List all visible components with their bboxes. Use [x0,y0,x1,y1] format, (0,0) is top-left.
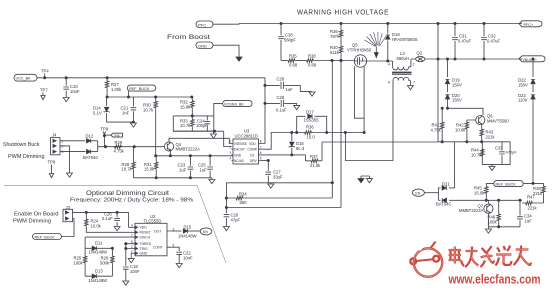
capacitor C19 [123,264,140,281]
svg-text:Q2: Q2 [417,51,423,56]
connector J4 [51,133,64,155]
svg-text:150V: 150V [452,82,462,87]
svg-text:110V: 110V [518,98,528,103]
connector VOSNS_BK [214,101,252,116]
ground under loop [489,165,495,171]
zener D16 [289,131,305,155]
capacitor C31 [452,22,471,60]
diode D19 [445,58,462,92]
svg-text:3: 3 [230,151,232,155]
capacitor C29 [264,95,297,113]
capacitor C26 [102,211,120,230]
svg-text:GND: GND [140,252,148,256]
svg-text:D13: D13 [95,269,103,274]
transformer L3 [388,51,416,85]
wire VCC rail [37,77,265,79]
svg-text:TP8: TP8 [48,160,56,165]
connector REF_BUCK low [33,234,62,240]
svg-text:J4: J4 [52,133,57,138]
svg-text:PFC+: PFC+ [524,23,535,27]
svg-text:221k: 221k [528,205,538,210]
connector PFC (from boost) [196,21,217,28]
svg-text:1SS355: 1SS355 [304,118,320,123]
svg-text:VCC_BK: VCC_BK [16,77,32,81]
svg-text:BAT54C: BAT54C [436,201,452,206]
resistor R30 [143,97,158,156]
wire emitter rail [156,155,233,157]
svg-text:1N4148W: 1N4148W [178,234,197,239]
svg-text:1: 1 [62,139,64,143]
resistor R41 [431,107,445,142]
watermark chinese inner highlight [449,247,529,266]
svg-text:1N4148W: 1N4148W [89,250,108,255]
transistor Q4 [164,142,200,152]
svg-text:470pF: 470pF [506,150,518,155]
resistor R35 [287,54,306,68]
svg-text:EAOUT: EAOUT [234,148,245,152]
diode D17 [304,110,320,123]
wire Q5 drain to L3 [367,60,393,62]
svg-text:2: 2 [62,144,64,148]
svg-text:D17: D17 [306,110,314,115]
wire OUT row [171,230,181,232]
svg-text:REF_BUCK: REF_BUCK [496,182,517,186]
wire VBUCK row [425,58,520,60]
svg-text:MMBT2222A: MMBT2222A [459,208,484,213]
svg-text:EN: EN [415,191,420,195]
testpoint TP7 [40,88,48,100]
svg-text:15.0k: 15.0k [474,190,485,195]
testpoint TP9 [101,127,109,147]
resistor R25 [74,248,87,276]
wire bottom rail [134,177,215,184]
svg-text:COMP: COMP [248,148,258,152]
svg-text:1uF: 1uF [200,167,208,172]
capacitor C27 [266,159,283,182]
capacitor C32 [481,22,500,60]
svg-text:R36: R36 [306,125,314,130]
wire DISCH ladder top [85,237,135,248]
wire CS to Q5 [332,60,355,62]
wire J3 pin2 to REF [62,219,75,237]
watermark logo elecfans [410,242,442,277]
ground under C20 [223,227,229,231]
svg-text:221k: 221k [486,134,496,139]
wire THRES TRIG joins [125,243,135,266]
svg-text:NC/AD: NC/AD [234,159,245,163]
resistor R38 [306,54,333,68]
svg-text:R37: R37 [310,154,318,159]
svg-text:9L-3: 9L-3 [296,146,305,151]
resistor R33 [180,115,194,131]
svg-text:4: 4 [230,157,232,161]
svg-text:RESET: RESET [140,231,151,235]
svg-text:PWM Dimming: PWM Dimming [13,218,51,224]
svg-text:REF_BUCK: REF_BUCK [129,87,150,91]
capacitor C22 [176,251,193,268]
svg-text:www.elecfans.com: www.elecfans.com [448,272,541,287]
svg-text:511k: 511k [330,50,340,55]
capacitor C10 [63,77,80,98]
resistor R45 [474,183,488,200]
wire CS feedback long [322,142,438,161]
capacitor C23 [178,156,194,178]
svg-text:787k: 787k [330,34,340,39]
svg-text:0.47uF: 0.47uF [458,39,471,44]
svg-text:EN: EN [203,230,208,234]
resistor R42 [455,120,476,142]
svg-text:MMBT2222A: MMBT2222A [176,147,201,152]
svg-text:REF_BUCK: REF_BUCK [35,235,56,239]
svg-text:0.68: 0.68 [289,63,298,68]
svg-text:1.00k: 1.00k [111,87,122,92]
wire J4 pin3 [60,151,86,153]
svg-text:TRIG: TRIG [140,247,148,251]
transistor Q5 MOSFET [347,43,372,68]
flag EN tap [104,133,122,138]
svg-text:UCC28811D: UCC28811D [235,133,258,138]
svg-text:33uF: 33uF [273,174,283,179]
svg-text:C33: C33 [495,146,503,151]
resistor R47 [522,195,544,211]
svg-text:0.1uF: 0.1uF [102,216,113,221]
wire pin5 stub to C27 [261,160,268,162]
node dots row97 [106,96,193,98]
node top bus start [239,23,520,25]
capacitor C33 [495,142,517,165]
svg-text:150V: 150V [518,82,528,87]
loop D17 [297,116,327,132]
wire Q5 source down [363,67,365,134]
resistor R37 [306,154,323,168]
svg-text:OUT: OUT [154,229,161,233]
capacitor C20 [224,213,241,223]
svg-text:5.1V: 5.1V [93,111,102,116]
svg-text:HFA08TB60S: HFA08TB60S [392,37,418,42]
svg-text:1N4148W: 1N4148W [89,278,108,283]
watermark chinese halo [449,246,532,268]
wire C20 column [225,183,227,227]
svg-text:DISCH: DISCH [140,235,151,239]
wire loop bottom to arrow [173,130,223,138]
capacitor C21 [121,97,137,122]
wire PFC to top bus [217,23,240,26]
capacitor C34 [517,200,532,227]
resistor R46 [488,200,501,227]
wire Q5 gate down [354,66,364,118]
node dots base row [104,146,135,148]
svg-text:From Boost: From Boost [167,34,210,41]
wire Q4 emitter [169,151,171,156]
svg-text:500k: 500k [100,260,110,265]
op-amp U2 TLC555D [131,214,175,256]
svg-text:MMVT5560: MMVT5560 [487,118,509,123]
testpoint TP8 [48,160,56,178]
zener D14 [93,97,133,122]
svg-text:10.7k: 10.7k [122,167,133,172]
wire D21 row to node [455,199,488,201]
svg-text:TP9: TP9 [101,127,109,132]
resistor R34 [235,191,247,205]
wire L3 pin7 arrow [407,84,413,89]
svg-text:Shutdown Buck: Shutdown Buck [3,142,40,148]
wire J3 pin1 row [73,211,136,227]
wire J4 pin1 [60,140,86,142]
connector VBUCK+ [519,56,545,62]
connector EN oval right [412,189,438,196]
resistor R40 [330,38,343,62]
resistor R32 [180,97,194,116]
diode D20 [445,93,462,109]
capacitor C28 [265,77,315,97]
wire CONT row [171,247,179,251]
resistor R27 [105,77,122,97]
svg-text:R47: R47 [527,195,535,200]
wire C27 ground rail [226,182,333,189]
transistor Q7 [459,200,493,214]
wire D20 to Q6 collector [446,107,483,115]
svg-text:Frequency: 200Hz / Duty C: Frequency: 200Hz / Duty Cycle: 18% - 98% [70,197,193,203]
svg-text:EN: EN [115,134,120,138]
svg-text:4.75k: 4.75k [431,127,442,132]
svg-text:WARNING HIGH VOLTAGE: WARNING HIGH VOLTAGE [297,8,389,17]
wire VDD column [261,78,266,144]
diode D21 [436,182,455,207]
resistor R39 [296,125,328,140]
svg-text:150V: 150V [452,98,462,103]
svg-text:VDD: VDD [249,142,256,146]
diode D11 [85,240,113,254]
wire D21 up to rail [454,142,456,188]
svg-text:100pF: 100pF [196,123,208,128]
wire Q7 emitter ground [485,214,520,233]
svg-text:PFC: PFC [198,22,206,27]
wire GND down arrow [217,45,243,61]
svg-text:9: 9 [388,81,390,85]
wire right main vertical [437,22,439,141]
wire sense row [281,60,287,62]
svg-text:DRV: DRV [250,159,258,163]
loop R44 C33 [482,142,510,165]
svg-text:R38: R38 [308,54,316,59]
wire J4 pin2 to ground [60,146,73,177]
svg-text:10nF: 10nF [130,269,140,274]
connector J3 [63,205,73,222]
ground C19 [123,281,129,285]
svg-text:R35: R35 [289,54,297,59]
node dots rail155 [155,155,212,157]
svg-text:660uH: 660uH [397,56,409,61]
wire node row [107,96,192,98]
svg-text:1: 1 [230,140,232,144]
svg-text:R34: R34 [239,191,247,196]
wire rail 141.8 [438,141,483,143]
svg-text:YTPHH8N50: YTPHH8N50 [347,48,372,53]
border optional dimming [4,186,226,263]
connector REF_BUCK mid [127,85,156,97]
svg-text:GND: GND [198,43,207,48]
svg-text:0.1uF: 0.1uF [276,108,287,113]
svg-text:3: 3 [62,150,64,154]
ground under C10 [63,98,69,102]
svg-text:VSENSE: VSENSE [234,142,247,146]
diode D13 [85,269,112,283]
capacitor C38 [278,24,296,61]
svg-text:1uF: 1uF [179,167,187,172]
resistor R31 [144,156,158,178]
svg-text:560pF: 560pF [284,38,296,43]
svg-text:TP4: TP4 [41,69,49,74]
svg-text:1uF: 1uF [286,87,294,92]
svg-text:10.7k: 10.7k [471,152,482,157]
svg-text:4: 4 [388,63,390,67]
svg-text:100k: 100k [74,260,84,265]
svg-text:GND: GND [234,153,242,157]
svg-text:10.0k: 10.0k [455,127,466,132]
svg-text:0.68: 0.68 [308,63,317,68]
wire base row to R47 [486,199,522,201]
svg-text:0.47uF: 0.47uF [487,39,500,44]
svg-text:VDD: VDD [140,226,148,230]
svg-text:VOSNS_BK: VOSNS_BK [224,102,244,106]
svg-text:BAT540: BAT540 [83,155,98,160]
resistor R28 [122,147,136,178]
capacitor C25 [198,156,213,178]
svg-text:PWM Dimming: PWM Dimming [8,154,45,160]
loop R33 C24 [173,116,214,131]
svg-text:Optional Dimming Circuit: Optional Dimming Circuit [86,190,169,197]
resistor R43 [480,125,496,142]
connector GND (from boost) [196,42,217,49]
svg-text:560: 560 [240,200,248,205]
svg-text:10.7k: 10.7k [143,108,154,113]
wire loop bottom to U3 pin2 [224,131,232,146]
ground U2 [128,253,135,263]
svg-text:Enable On Board: Enable On Board [14,212,59,218]
resistor R48 [532,182,545,203]
svg-text:D21: D21 [442,182,450,187]
wire R34 row2 [226,207,341,209]
svg-text:D15: D15 [184,224,192,229]
resistor R44 [471,148,484,158]
resistor R26 [100,248,114,276]
wire pin7 compensation [261,133,364,150]
svg-text:15.0k: 15.0k [144,167,155,172]
svg-text:C29: C29 [277,95,285,100]
svg-text:21.0k: 21.0k [310,163,321,168]
svg-text:D11: D11 [95,240,103,245]
resistor R29 [114,140,125,153]
op-amp U3 UCC28811D [230,128,262,164]
svg-text:7: 7 [413,81,415,85]
wire pin6 CS row [261,154,305,156]
svg-text:10uF: 10uF [70,89,80,94]
svg-text:TLC555D: TLC555D [144,218,162,223]
wire CS sense vertical [331,61,333,199]
svg-text:C28: C28 [277,77,285,82]
component Q2 [416,51,425,62]
svg-text:1nF: 1nF [122,111,130,116]
wire base row [105,146,165,148]
heatsink mark [365,32,387,58]
ground right of C29 [294,103,300,109]
svg-text:THRES: THRES [140,242,152,246]
svg-text:100k: 100k [488,219,498,224]
svg-text:VBUCK+: VBUCK+ [523,58,537,62]
diode D15 [178,224,200,238]
diode D18 [386,24,418,63]
testpoint TP4 [41,69,49,79]
diode D23 [518,93,535,184]
resistor R36 [330,24,343,39]
svg-text:10.7k: 10.7k [180,123,191,128]
wire Q4 collector to U3 pin1 [169,138,232,143]
watermark chinese text [449,246,532,268]
node CS junction [331,59,333,61]
transistor Q6 [476,114,510,126]
diode D12B [83,150,98,160]
connector REF_BUCK right [486,181,543,187]
diode D22 [518,58,535,92]
connector EN oval mid [200,228,212,235]
capacitor C24 [196,116,210,131]
svg-text:TP7: TP7 [40,88,48,93]
svg-text:47pF: 47pF [231,217,241,222]
svg-text:R29: R29 [115,140,123,145]
svg-text:D12: D12 [86,133,94,138]
svg-text:CS: CS [250,153,254,157]
svg-text:10nF: 10nF [183,255,193,260]
svg-text:2: 2 [413,63,415,67]
connector VCC_BK [14,74,37,81]
wire L3 pin9 return [344,84,393,160]
ground under C21 [130,121,136,127]
svg-text:CONT: CONT [153,245,163,249]
svg-text:4.75k: 4.75k [114,148,125,153]
connector PFC+ [519,21,542,27]
svg-text:15.8k: 15.8k [180,104,191,109]
svg-text:4: 4 [131,224,133,228]
wire diode join [98,141,105,152]
svg-text:10.0k: 10.0k [91,223,102,228]
ground pair mid [358,176,372,183]
svg-text:10.0: 10.0 [307,135,316,140]
svg-text:2: 2 [230,145,232,149]
wire R34 row1 [226,197,332,199]
wire R40 column down [340,59,342,207]
diode D12 [86,133,98,143]
resistor R24 [85,212,136,232]
svg-text:1uF: 1uF [525,218,533,223]
